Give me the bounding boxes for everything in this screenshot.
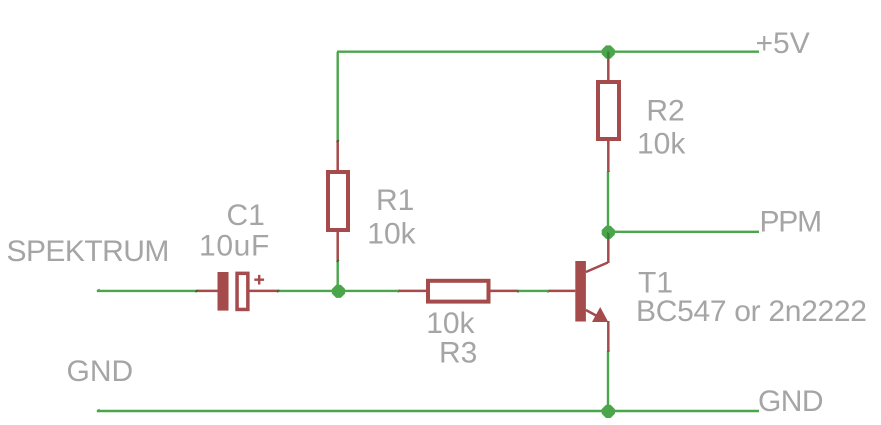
svg-text:R3: R3 (439, 337, 477, 370)
svg-text:R1: R1 (376, 184, 414, 217)
wire SPEKTRUM left end tick (97, 290, 100, 292)
junction node +5V rail (602, 45, 615, 58)
pin connection nub R1 bottom (337, 260, 339, 262)
capacitor C1 (197, 272, 279, 311)
svg-text:PPM: PPM (760, 206, 821, 239)
svg-text:10k: 10k (367, 218, 416, 251)
transistor T1 (548, 232, 608, 352)
svg-text:+5V: +5V (756, 27, 810, 60)
pin connection nub R2 bottom (607, 171, 609, 173)
pin connection nub right (547, 290, 549, 292)
svg-text:SPEKTRUM: SPEKTRUM (7, 235, 169, 268)
resistor R3 (399, 281, 519, 302)
svg-text:10k: 10k (426, 307, 475, 340)
wire C1 to node (278, 290, 338, 292)
pin connection nub R1 top (337, 140, 339, 142)
pin stub in PPM junction (607, 232, 609, 239)
svg-text:10uF: 10uF (199, 230, 270, 263)
pin connection nub C1 left (195, 290, 197, 292)
wire R2 to PPM node (607, 172, 609, 232)
wire R1 top vertical (337, 52, 339, 140)
wire node to R3 (338, 290, 399, 292)
resistor R1 (328, 140, 348, 261)
pin connection nub T1 emitter (607, 350, 609, 352)
wire PPM (608, 231, 759, 233)
wire SPEKTRUM left (97, 290, 197, 292)
svg-text:R2: R2 (646, 95, 684, 128)
svg-text:10k: 10k (637, 128, 686, 161)
wire R1 bottom to node (337, 261, 339, 291)
svg-text:C1: C1 (227, 199, 265, 232)
wire T1 emitter to GND rail (607, 352, 609, 411)
pin connection nub R3 left (398, 290, 400, 292)
pin connection nub C1 right (277, 290, 279, 292)
wire GND bottom rail (97, 410, 759, 412)
junction node base (R1/C1/R3) (332, 285, 345, 298)
wire R3 to T1 base (518, 290, 548, 292)
svg-text:BC547 or 2n2222: BC547 or 2n2222 (636, 295, 867, 328)
resistor R2 (598, 52, 619, 172)
pin stub in +5V junction (607, 52, 609, 59)
junction node GND (602, 405, 615, 418)
junction node PPM (602, 226, 615, 239)
svg-text:GND: GND (67, 355, 134, 388)
wire +5V top rail (337, 51, 759, 53)
pin connection nub left (518, 290, 520, 292)
svg-text:GND: GND (758, 385, 823, 418)
wire GND rail left end tick (97, 410, 100, 412)
